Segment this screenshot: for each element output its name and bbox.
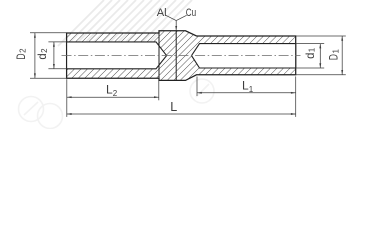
svg-text:1: 1 — [308, 47, 317, 52]
dimension L2 extension lines — [67, 79, 159, 117]
right bore d1 (white) with cone — [192, 44, 296, 68]
dimension L1 line — [197, 92, 296, 94]
watermark swirl bottom-left — [19, 97, 63, 129]
centerline — [62, 55, 301, 57]
sleeve body hatched silhouette — [67, 31, 296, 81]
dimension L1 extension line — [196, 77, 198, 97]
svg-text:2: 2 — [40, 48, 49, 53]
Al/Cu weld boundary line — [175, 31, 177, 81]
dimension d1 extension lines — [296, 44, 325, 68]
svg-text:d: d — [35, 53, 49, 59]
svg-text:D: D — [14, 53, 28, 59]
watermark swirl middle — [190, 79, 214, 103]
dimension D1 arrows — [341, 36, 343, 75]
dimension L2 line — [67, 96, 159, 98]
svg-text:2: 2 — [19, 48, 28, 53]
dimension L right extension line — [295, 76, 297, 117]
dimension D2 arrows — [34, 33, 36, 78]
dimension L1 arrows — [197, 92, 296, 94]
collar left face line — [158, 31, 160, 80]
leader lines Al/Cu — [166, 15, 187, 30]
svg-text:1: 1 — [331, 49, 340, 54]
svg-text:Cu: Cu — [186, 7, 196, 19]
dimension L line — [67, 113, 296, 115]
left bore d2 (white) with cone — [67, 42, 167, 69]
svg-text:D: D — [327, 54, 341, 60]
dimension L2 arrows — [67, 96, 159, 98]
dimension d2 extension lines — [48, 42, 66, 69]
dimension L arrows — [67, 113, 296, 115]
dimension d1 line — [319, 44, 321, 68]
dimension D2 line — [34, 33, 36, 78]
dimension d1 arrows — [319, 44, 321, 68]
dimension d2 arrows — [53, 42, 55, 69]
svg-text:Al: Al — [157, 7, 167, 19]
dimension D2 extension lines — [30, 33, 67, 78]
dimension D1 extension lines — [296, 36, 346, 75]
leader arrowhead — [175, 26, 177, 31]
dimension D1 line — [341, 36, 343, 75]
dimension d2 line — [53, 42, 55, 69]
watermark diagonal stripes — [58, 0, 192, 46]
svg-text:L: L — [170, 100, 177, 114]
svg-text:d: d — [303, 53, 317, 59]
